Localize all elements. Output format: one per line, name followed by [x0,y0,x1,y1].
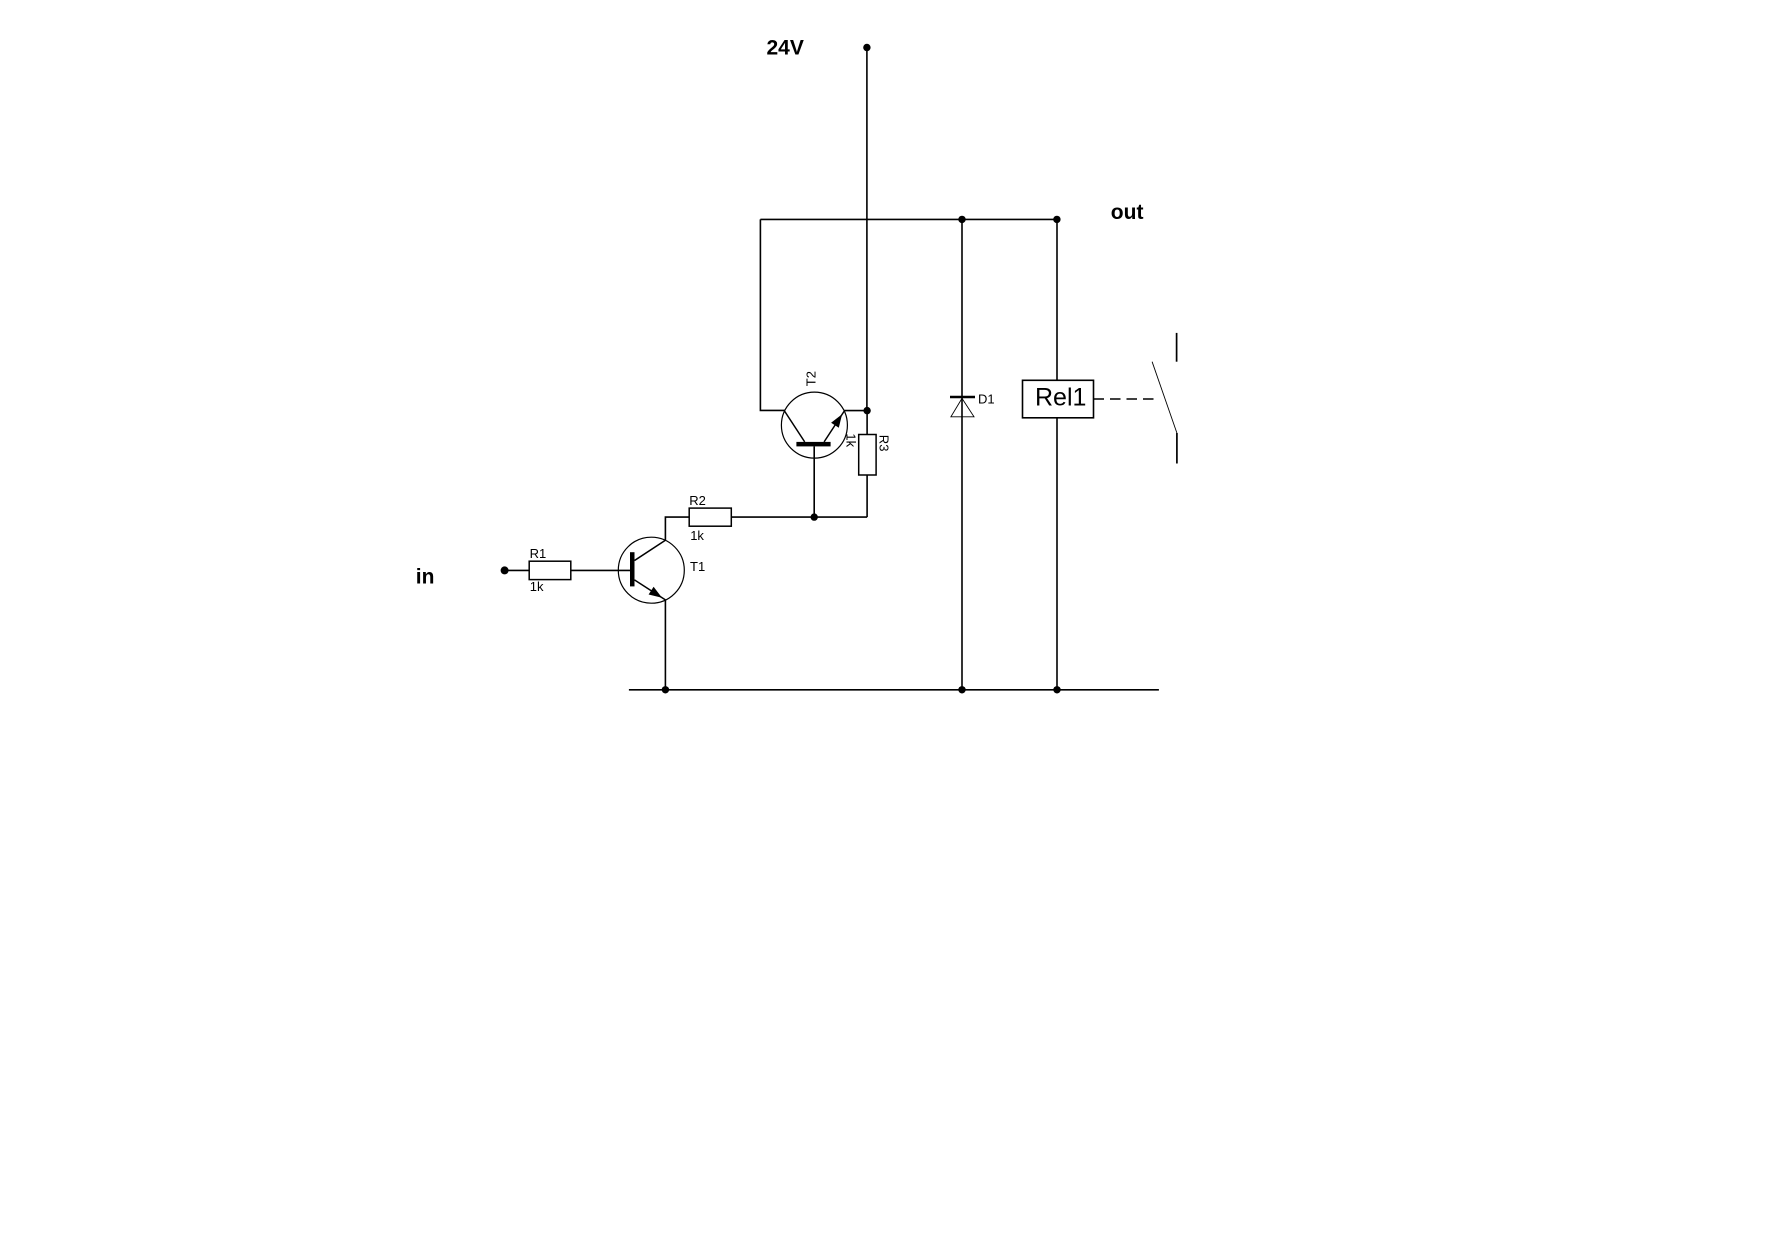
junction ground / Rel1 [1053,686,1060,693]
resistor R2 [689,508,731,526]
relay coil Rel1 [1023,380,1094,418]
junction ground / T1 emitter [662,686,669,693]
wire 24V vertical [866,48,868,411]
wire T1 emitter to ground [664,600,666,690]
node 24V terminal dot [863,44,870,51]
wire Rel1 bottom lead [1056,418,1058,690]
wire out rail [760,218,1057,220]
svg-text:R2: R2 [689,493,706,508]
transistor T1 [618,537,705,603]
junction T2 collector / 24V / R3 [863,407,870,414]
junction ground / D1 [958,686,965,693]
wire R2 right to R3 node [731,516,867,518]
svg-text:1k: 1k [690,528,704,543]
svg-text:R3: R3 [877,435,892,452]
svg-text:24V: 24V [767,37,804,60]
wire R3 top lead [866,411,868,435]
wire R3 bottom lead [866,475,868,517]
svg-text:T2: T2 [803,371,818,386]
svg-text:Rel1: Rel1 [1035,384,1086,412]
wire in lead to R1 [505,569,530,571]
junction out rail / Rel1 [1053,216,1060,223]
node in terminal dot [501,566,509,574]
transistor T2 [781,371,847,458]
wire Rel1 top lead [1056,219,1058,380]
svg-text:out: out [1111,201,1144,224]
wire T2 emitter to 24V node [844,410,867,412]
dashed mechanical link Rel1 to switch [1094,398,1160,400]
relay switch contact [1152,333,1177,464]
wire T2 base lead [813,446,815,517]
wire ground rail [629,689,1159,691]
resistor R3 [859,435,876,476]
diode D1 [950,392,995,417]
junction out rail / D1 [958,216,965,223]
wire D1 branch [961,219,963,689]
resistor R1 [529,561,571,579]
svg-text:D1: D1 [978,392,995,407]
svg-text:1k: 1k [530,579,544,594]
svg-text:R1: R1 [530,546,547,561]
wire R2 left lead [665,517,689,540]
svg-text:in: in [416,566,435,589]
wire T2 collector branch [760,219,784,410]
junction T2 base / R2 [811,513,818,520]
svg-text:T1: T1 [690,559,705,574]
wire R1 to T1 base [571,569,630,571]
